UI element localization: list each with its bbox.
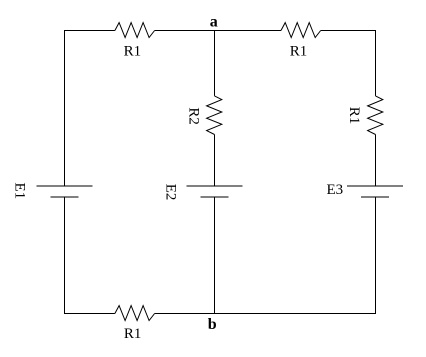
label E1 <box>12 182 28 199</box>
resistor R1 (bottom) <box>115 306 155 321</box>
wire middle branch lower <box>214 197 216 314</box>
label R1 (top-left) <box>124 44 142 60</box>
wire right branch lower <box>375 197 377 314</box>
label R1 (right branch) <box>346 107 362 125</box>
wire left branch lower <box>64 197 66 314</box>
svg-text:R1: R1 <box>124 44 142 60</box>
wire top-left segment <box>64 30 115 32</box>
wire top-right segment <box>321 30 376 32</box>
node a <box>210 13 218 30</box>
svg-text:a: a <box>210 13 218 30</box>
wire right branch mid <box>375 135 377 187</box>
resistor R2 <box>207 96 222 135</box>
svg-text:R1: R1 <box>124 326 142 342</box>
svg-text:E3: E3 <box>326 182 343 198</box>
battery E1 <box>37 186 93 197</box>
label E3 <box>326 182 343 198</box>
label R2 <box>185 107 201 125</box>
label R1 (top-right) <box>290 44 308 60</box>
label E2 <box>162 184 178 201</box>
wire middle branch upper <box>214 30 216 96</box>
svg-text:E1: E1 <box>12 182 28 199</box>
wire bottom-left segment <box>64 313 115 315</box>
resistor R1 (top-right) <box>281 23 321 38</box>
wire bottom-right segment <box>155 313 376 315</box>
node b <box>208 316 217 333</box>
svg-text:b: b <box>208 316 217 333</box>
wire right branch upper <box>375 30 377 96</box>
battery E2 <box>187 186 243 197</box>
label R1 (bottom) <box>124 326 142 342</box>
battery E3 <box>347 186 403 197</box>
svg-text:E2: E2 <box>162 184 178 201</box>
svg-text:R1: R1 <box>290 44 308 60</box>
resistor R1 (top-left) <box>115 23 155 38</box>
wire middle branch mid <box>214 135 216 187</box>
resistor R1 (right branch) <box>368 96 383 135</box>
svg-text:R1: R1 <box>346 107 362 125</box>
svg-text:R2: R2 <box>185 107 201 125</box>
wire top-middle segment <box>155 30 281 32</box>
wire left branch upper <box>64 30 66 186</box>
